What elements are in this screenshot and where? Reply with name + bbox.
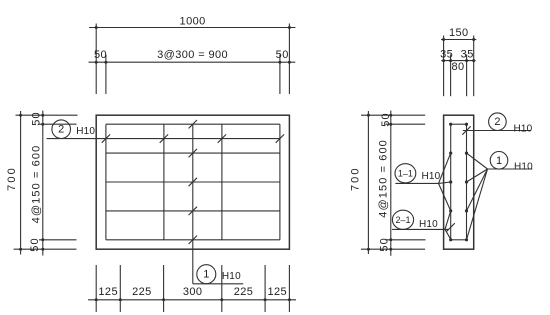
rebar vertical bar V2 [163, 124, 165, 240]
section left dim ext top edge [361, 114, 425, 116]
svg-text:50: 50 [29, 237, 41, 251]
section callout 1-1 underline [395, 182, 438, 184]
svg-text:1: 1 [203, 269, 209, 281]
svg-text:2: 2 [494, 116, 500, 128]
rebar vertical bar V4 [279, 124, 281, 240]
tick on H3 [189, 178, 197, 186]
bottom dim extension x=96.2 [95, 265, 97, 312]
svg-text:1000: 1000 [180, 16, 206, 28]
svg-text:H10: H10 [514, 162, 533, 173]
section callout ellipse 1-1 [395, 164, 416, 183]
section callout 2-1 fan to row5 [445, 229, 451, 240]
svg-text:1–1: 1–1 [398, 168, 413, 178]
svg-text:300: 300 [183, 286, 203, 298]
section left vertical bar [450, 124, 452, 240]
left dim extension bar H1 [39, 123, 77, 125]
svg-text:H10: H10 [419, 219, 438, 230]
section callout 1 fan to row4 [467, 169, 488, 211]
svg-text:700: 700 [6, 166, 18, 191]
svg-text:50: 50 [30, 111, 42, 125]
bottom dim extension x=265.1 [264, 265, 266, 312]
svg-text:50: 50 [94, 49, 107, 61]
section callout 1-1 fan to row4 [439, 183, 451, 211]
section callout 2-1 underline [392, 228, 449, 230]
section concrete outline [444, 115, 474, 249]
section left dim ext bar row5 [385, 239, 425, 241]
section callout 2-1 tick [446, 223, 454, 231]
svg-text:700: 700 [350, 166, 362, 191]
leader underline callout 1 [193, 283, 243, 285]
section callout 1-1 fan to row3 [439, 182, 451, 183]
svg-text:50: 50 [379, 237, 391, 251]
section top tie [451, 123, 467, 125]
section callout 2 underline [463, 130, 531, 132]
leader line callout 2 horizontal [47, 138, 280, 140]
dimension line 35/80/35 [441, 60, 475, 62]
svg-text:225: 225 [234, 286, 254, 298]
section left dim ext bar row1 [385, 123, 425, 125]
svg-text:H10: H10 [514, 123, 533, 134]
dimension line 700 vertical [20, 111, 22, 255]
section right vertical bar [466, 124, 468, 240]
section callout 2 tick [462, 126, 470, 134]
callout circle 1 [197, 265, 216, 284]
tick on H5 [189, 236, 197, 244]
svg-text:3@300 = 900: 3@300 = 900 [157, 49, 228, 61]
top dim extension line inner left [105, 55, 107, 95]
bottom dim extension x=163.6 [163, 265, 165, 312]
section callout circle 2 [489, 113, 507, 131]
rebar vertical bar V1 [105, 124, 107, 240]
svg-text:225: 225 [132, 286, 152, 298]
svg-text:1: 1 [496, 155, 502, 167]
section callout circle 1 [490, 152, 508, 170]
section callout 1 underline [488, 168, 533, 170]
bottom dimension line [88, 299, 296, 301]
leader line callout 1 vertical [192, 124, 194, 284]
svg-text:H10: H10 [222, 271, 241, 282]
svg-text:4@150 = 600: 4@150 = 600 [377, 139, 389, 218]
svg-text:H10: H10 [422, 171, 441, 182]
section bar dots right column [465, 123, 468, 242]
left dim extension top edge [16, 114, 78, 116]
tick on V4 [276, 134, 284, 142]
section left dim ext bottom edge [361, 248, 425, 250]
svg-text:80: 80 [451, 61, 464, 73]
dimension line 50/600/50 vertical [42, 111, 44, 256]
rebar horizontal bar H4 [106, 210, 280, 212]
svg-text:125: 125 [98, 286, 118, 298]
rebar horizontal bar H3 [106, 181, 280, 183]
svg-text:H10: H10 [76, 126, 95, 137]
section callout 1 fan to row5 [467, 169, 488, 240]
tick on V2 [160, 134, 168, 142]
callout circle 2 [52, 120, 71, 139]
svg-text:2–1: 2–1 [395, 215, 410, 225]
dimension line 150 [441, 39, 476, 41]
svg-text:2: 2 [58, 124, 64, 136]
bottom dim extension x=289.4 [288, 265, 290, 312]
svg-text:150: 150 [449, 27, 469, 39]
section callout 1-1 fan to row2 [439, 153, 451, 183]
rebar vertical bar V3 [221, 124, 223, 240]
section callout ellipse 2-1 [392, 210, 413, 229]
dimension line 1000 [89, 27, 296, 29]
section bar dots left column [449, 123, 452, 242]
left dim extension bar H5 [39, 239, 77, 241]
section dimension line 700 [367, 111, 369, 254]
section callout 2-1 fan to row4 [445, 211, 451, 229]
section dimension line 50/600/50 [390, 111, 392, 256]
section bottom tie [451, 239, 467, 241]
rebar horizontal bar H2 [106, 152, 280, 154]
section callout 1 fan to row2 [467, 153, 488, 169]
section top dim ext left edge [443, 36, 445, 97]
svg-text:35: 35 [440, 49, 453, 61]
svg-text:35: 35 [461, 49, 474, 61]
svg-text:125: 125 [268, 286, 288, 298]
bottom dim extension x=120.3 [119, 265, 121, 312]
rebar horizontal bar H5 [106, 239, 280, 241]
tick on H1 [189, 120, 197, 128]
dimension line 3@300=900 [89, 61, 296, 63]
plan view concrete outline [96, 115, 289, 249]
section top dim ext inner left [450, 55, 452, 97]
tick on H2 [189, 149, 197, 157]
top dim extension line left edge [95, 24, 97, 95]
section top dim ext inner right [466, 55, 468, 97]
svg-text:50: 50 [276, 49, 289, 61]
tick on V1 [102, 134, 110, 142]
left dim extension bottom edge [14, 248, 77, 250]
section callout 1 fan to row3 [467, 169, 488, 182]
top dim extension line right edge [288, 24, 290, 95]
top dim extension line inner right [279, 55, 281, 95]
svg-text:4@150 = 600: 4@150 = 600 [30, 145, 42, 224]
rebar horizontal bar H1 [106, 123, 280, 125]
tick on H4 [189, 207, 197, 215]
bottom dim extension x=221.8 [221, 265, 223, 312]
tick on V3 [218, 134, 226, 142]
section top dim ext right edge [473, 36, 475, 97]
svg-text:50: 50 [380, 112, 392, 126]
